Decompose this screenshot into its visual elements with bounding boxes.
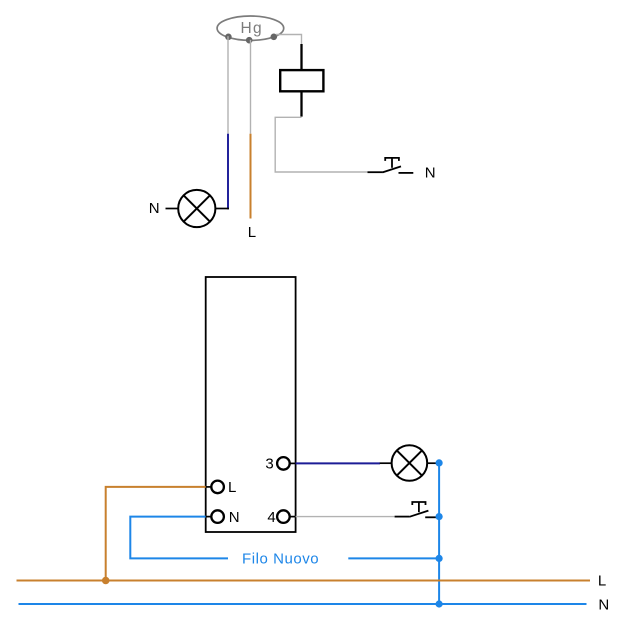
lamp E2 (bottom) [392,445,428,481]
fixture terminal dot left [225,34,232,41]
svg-text:N: N [149,200,160,217]
fixture terminal dot middle [246,37,253,44]
wire: lamp E2 right stub (black) [427,462,436,464]
wire: terminal 3 to lamp E2 (dark blue) [296,462,380,464]
junction dot (N rail / drop wire) [436,600,443,607]
terminal N [211,510,224,523]
wire: lamp E2 left stub (black) [380,462,392,464]
svg-text:3: 3 [265,456,273,473]
wire: out of ballast (black) [300,91,302,116]
push button S2 (bottom) [395,502,437,517]
svg-text:N: N [598,596,609,613]
wire: lamp E1 to blue wire (black) [215,208,229,210]
wire L (orange segment, top) [250,134,252,219]
terminal 4 stub [290,516,296,518]
wire: elbow down-left (gray) [275,117,367,172]
svg-text:L: L [248,224,256,241]
wire: drop (bright blue vertical) [438,463,440,604]
lamp fixture U1 (Hg ceiling rose) [217,16,284,40]
junction dot (filo nuovo / drop wire) [436,555,443,562]
svg-text:Filo Nuovo: Filo Nuovo [242,551,319,568]
svg-text:N: N [229,509,240,526]
wire: left fixture dot down (gray segment) [227,36,229,134]
wire: terminal L to L rail (orange) [106,487,206,581]
wire: terminal 4 to push button S2 (gray) [296,516,395,518]
wire: right fixture dot to ballast (gray elbow) [276,35,302,45]
svg-text:N: N [425,164,436,181]
wire: middle fixture dot down (gray segment) [250,40,252,134]
lamp E1 (top) [178,190,215,227]
junction dot (push button S2 / drop wire) [436,513,443,520]
wire: filo nuovo right segment (bright blue) [348,557,439,559]
wire: terminal N new wire (bright blue) [130,517,228,559]
terminal N stub [206,516,212,518]
wire: N to lamp E1 [166,208,179,210]
svg-text:4: 4 [267,509,275,526]
push button S1 (top) [368,158,414,173]
fixture terminal dot right [271,34,278,41]
svg-text:L: L [228,479,236,496]
ballast K1 [280,70,323,91]
terminal L stub [206,486,212,488]
terminal L [211,481,224,494]
junction dot (orange, L rail) [102,577,110,585]
svg-text:Hg: Hg [241,20,263,37]
control unit A1 [206,277,296,532]
svg-text:L: L [598,573,606,590]
wire: left fixture dot down (blue segment) [227,134,229,210]
wire: into ballast (black) [300,44,302,71]
terminal 3 [277,457,290,470]
L rail (orange) [17,580,591,582]
terminal 3 stub [290,462,296,464]
N rail (blue) [19,603,587,605]
junction dot (lamp E2 / drop wire) [436,459,443,466]
terminal 4 [277,510,290,523]
